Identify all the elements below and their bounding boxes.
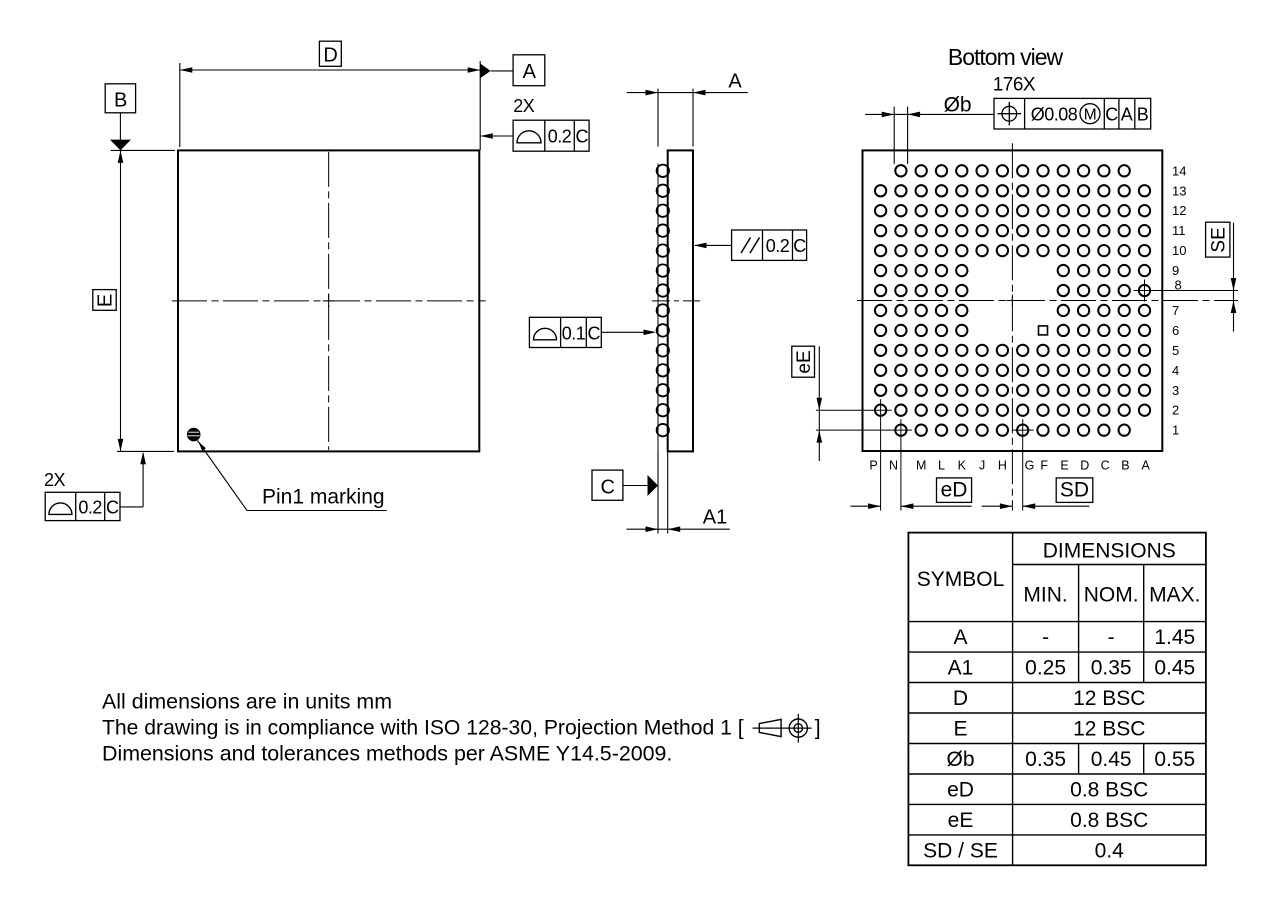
svg-text:D: D	[953, 687, 968, 710]
svg-text:Bottom view: Bottom view	[948, 44, 1064, 70]
svg-text:-: -	[1108, 626, 1115, 649]
dimension D label box	[319, 41, 341, 66]
svg-text:Dimensions and tolerances meth: Dimensions and tolerances methods per AS…	[102, 742, 672, 766]
svg-text:G: G	[1025, 459, 1035, 473]
svg-text:eD: eD	[947, 778, 974, 801]
pin 1 leader arrowhead	[198, 441, 206, 451]
datum target ball A8 (crosshair)	[1139, 285, 1150, 296]
svg-text:0.4: 0.4	[1095, 839, 1125, 862]
flatness-profile FCF 0.1 C	[529, 317, 601, 347]
position symbol	[1002, 106, 1017, 121]
circled M modifier	[1080, 104, 1100, 124]
svg-text:All dimensions are in units mm: All dimensions are in units mm	[102, 690, 392, 714]
row numbers	[1172, 163, 1186, 437]
svg-text:2X: 2X	[44, 470, 66, 490]
svg-text:10: 10	[1172, 243, 1186, 258]
svg-text:C: C	[106, 497, 119, 517]
pin 1 leader line	[198, 441, 387, 511]
svg-text:C: C	[793, 236, 806, 256]
svg-text:1.45: 1.45	[1154, 626, 1195, 649]
svg-text:A: A	[1121, 105, 1133, 125]
svg-text:12: 12	[1172, 203, 1186, 218]
table cell separators	[1079, 622, 1144, 774]
leader arrow from FCF to right edge extension	[481, 135, 513, 137]
svg-text:A: A	[953, 626, 967, 649]
svg-text:eE: eE	[948, 809, 974, 832]
svg-text:Øb: Øb	[944, 94, 972, 117]
svg-text:P: P	[869, 459, 877, 473]
dimension A1 line	[626, 528, 729, 530]
dimension A extension lines	[657, 89, 659, 147]
svg-text:H: H	[998, 459, 1007, 473]
svg-text:C: C	[601, 477, 615, 499]
dimension D extension lines	[179, 63, 181, 147]
svg-text:2: 2	[1172, 403, 1179, 418]
datum target ball N1 (crosshair)	[895, 425, 906, 436]
SE dimension line	[1233, 223, 1235, 332]
svg-text:SYMBOL: SYMBOL	[917, 568, 1005, 591]
datum C label box	[592, 470, 623, 500]
svg-text:E: E	[1060, 459, 1068, 473]
svg-text:eE: eE	[794, 350, 815, 373]
side view package body	[668, 150, 693, 451]
side view ball tangent line (seating plane)	[657, 164, 659, 534]
position FCF frame	[994, 98, 1151, 129]
leader from FCF up to bottom edge extension	[120, 506, 143, 508]
svg-text:0.2: 0.2	[78, 497, 102, 517]
svg-text:0.55: 0.55	[1154, 748, 1195, 771]
svg-text:8: 8	[1175, 278, 1182, 293]
svg-text:2X: 2X	[513, 96, 535, 116]
svg-text:Øb: Øb	[946, 748, 974, 771]
svg-text:11: 11	[1172, 223, 1186, 238]
svg-text:The drawing is in compliance w: The drawing is in compliance with ISO 12…	[102, 717, 744, 740]
top view center cross	[323, 300, 335, 302]
svg-text:A1: A1	[703, 507, 727, 529]
svg-text:4: 4	[1172, 363, 1179, 378]
pin 1 marking dot	[187, 428, 200, 441]
svg-text:7: 7	[1172, 303, 1179, 318]
eE dimension line	[818, 346, 820, 461]
side view solder balls	[657, 165, 669, 437]
datum target ball P2 (crosshair)	[875, 405, 886, 416]
parallelism FCF // 0.2 C	[732, 230, 807, 260]
svg-text:D: D	[323, 45, 337, 67]
eD label box	[937, 478, 972, 503]
dimensions table frame	[908, 533, 1206, 866]
profile FCF 0.2 C (bottom left)	[45, 492, 120, 520]
eD dimension line	[850, 505, 880, 507]
svg-text:0.1: 0.1	[562, 324, 586, 344]
svg-text:MIN.: MIN.	[1023, 584, 1067, 607]
svg-text:L: L	[938, 459, 945, 473]
datum B leader and triangle	[119, 113, 121, 140]
projection method symbol: circles with crosshair	[789, 719, 807, 737]
SD dimension line	[982, 505, 1013, 507]
svg-text:0.35: 0.35	[1091, 657, 1132, 680]
dimension D line with arrowheads	[180, 69, 480, 71]
svg-text:N: N	[889, 459, 898, 473]
side view centerline	[652, 300, 700, 302]
svg-text:3: 3	[1172, 383, 1179, 398]
top view vertical centerline	[328, 152, 330, 450]
svg-text:Pin1 marking: Pin1 marking	[262, 486, 385, 509]
bottom view package outline	[863, 150, 1163, 451]
svg-text:6: 6	[1172, 323, 1179, 338]
svg-text:DIMENSIONS: DIMENSIONS	[1043, 540, 1176, 563]
solder ball grid (plain balls)	[875, 165, 1150, 436]
svg-text:176X: 176X	[993, 75, 1036, 96]
svg-text:13: 13	[1172, 183, 1186, 198]
datum C leader and triangle	[623, 485, 649, 487]
eE label box (rotated)	[792, 346, 815, 377]
projection method symbol: cone	[759, 719, 781, 736]
svg-text:0.8 BSC: 0.8 BSC	[1070, 778, 1148, 801]
dimension E line with arrowheads	[120, 150, 122, 451]
svg-text:C: C	[1101, 459, 1110, 473]
svg-text:C: C	[575, 127, 588, 147]
svg-text:12 BSC: 12 BSC	[1073, 717, 1145, 740]
svg-text:NOM.: NOM.	[1084, 584, 1139, 607]
bottom view center cross	[1006, 300, 1018, 302]
datum A label box	[513, 55, 545, 86]
dimension A line	[627, 92, 748, 94]
svg-text:M: M	[916, 459, 926, 473]
SD label box	[1056, 478, 1093, 503]
svg-text:eD: eD	[941, 479, 968, 502]
svg-text:B: B	[1121, 459, 1129, 473]
svg-text:0.45: 0.45	[1154, 657, 1195, 680]
svg-text:B: B	[1137, 105, 1149, 125]
svg-text:Ø0.08: Ø0.08	[1031, 105, 1078, 125]
svg-text:E: E	[953, 717, 967, 740]
column letters	[869, 459, 1150, 473]
dimension E label box (rotated)	[93, 290, 116, 311]
svg-text:0.2: 0.2	[766, 236, 790, 256]
dimension E extension lines	[111, 149, 175, 151]
bottom view horizontal centerline	[857, 300, 1238, 302]
svg-text:MAX.: MAX.	[1149, 584, 1200, 607]
svg-text:5: 5	[1172, 343, 1179, 358]
bottom view vertical centerline	[1011, 143, 1013, 510]
dimension A1 extension lines	[657, 451, 659, 533]
table data text	[923, 626, 1195, 862]
svg-text:SD: SD	[1060, 479, 1089, 502]
svg-text:E: E	[95, 294, 117, 307]
svg-text:0.2: 0.2	[548, 127, 572, 147]
A1 corner square marker at F6	[1039, 326, 1048, 335]
svg-text:12 BSC: 12 BSC	[1073, 687, 1145, 710]
svg-text:A: A	[1142, 459, 1151, 473]
datum B label box	[105, 84, 135, 113]
svg-text:]: ]	[815, 717, 821, 740]
svg-text:A: A	[728, 71, 742, 93]
svg-text:A1: A1	[948, 657, 974, 680]
svg-text:0.25: 0.25	[1025, 657, 1066, 680]
svg-text:F: F	[1040, 459, 1048, 473]
leader arrow to ball tangent line	[601, 331, 654, 333]
datum A triangle	[480, 64, 490, 79]
svg-text:SD / SE: SD / SE	[923, 839, 998, 862]
diameter b dimension line	[865, 113, 994, 115]
svg-text:J: J	[979, 459, 985, 473]
leader arrow to body right edge	[695, 244, 732, 246]
projection method symbol: axis line	[753, 727, 812, 729]
top view horizontal centerline	[172, 300, 486, 302]
svg-text:K: K	[958, 459, 967, 473]
svg-text:0.45: 0.45	[1091, 748, 1132, 771]
svg-text:B: B	[114, 90, 127, 112]
svg-text:C: C	[1105, 105, 1118, 125]
svg-text:M: M	[1084, 106, 1096, 123]
svg-text:SE: SE	[1209, 227, 1230, 252]
svg-text:14: 14	[1172, 163, 1186, 178]
profile FCF 0.2 C (top right)	[513, 120, 589, 151]
datum target ball G1 (crosshair)	[1017, 425, 1028, 436]
svg-text:1: 1	[1172, 423, 1179, 438]
svg-text:0.35: 0.35	[1025, 748, 1066, 771]
diameter b extension lines	[893, 107, 895, 164]
svg-text:A: A	[523, 61, 537, 83]
svg-text:C: C	[587, 324, 600, 344]
top view package outline	[178, 150, 479, 451]
SE label box (rotated)	[1206, 222, 1230, 257]
svg-text:0.8 BSC: 0.8 BSC	[1070, 809, 1148, 832]
svg-text:9: 9	[1172, 263, 1179, 278]
svg-text:-: -	[1042, 626, 1049, 649]
svg-text:D: D	[1080, 459, 1089, 473]
